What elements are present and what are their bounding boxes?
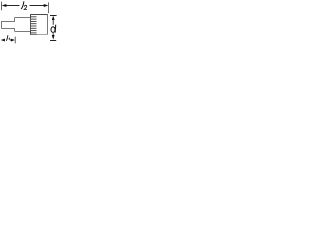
dimension d up arrow bbox=[52, 16, 55, 20]
dimension l2 line right segment bbox=[30, 5, 45, 7]
dimension l2 left arrow bbox=[2, 4, 7, 7]
knurled band left edge bbox=[30, 15, 32, 35]
knurled band stripes bbox=[31, 17, 37, 33]
dimension d bottom tick bbox=[50, 40, 56, 42]
socket bottom edge (light) bbox=[37, 34, 47, 36]
dimension l1 line segment bbox=[10, 39, 12, 41]
dimension l1 left arrow bbox=[1, 39, 5, 42]
dimension l2 right extension line bbox=[48, 2, 50, 13]
dimension l1 right arrow bbox=[11, 39, 15, 42]
tool outline: bit tip, shank, socket body bbox=[2, 15, 48, 35]
dimension d line lower bbox=[52, 33, 54, 36]
label l2 bbox=[21, 1, 27, 9]
dimension d down arrow bbox=[52, 35, 55, 40]
dimension l2 right arrow bbox=[44, 4, 49, 7]
dimension l2 left extension line bbox=[1, 2, 3, 11]
label d bbox=[51, 25, 56, 33]
tool outline lower-left: band bottom, shank bottom, tip bottom bbox=[2, 29, 38, 35]
dimension d top tick bbox=[50, 15, 57, 17]
label l1 bbox=[6, 35, 9, 41]
socket top edge overdraw bbox=[31, 14, 48, 16]
dimension d line upper bbox=[52, 20, 54, 25]
dimension l1 right extension line bbox=[14, 37, 16, 44]
dimension l2 line left segment bbox=[6, 5, 20, 7]
